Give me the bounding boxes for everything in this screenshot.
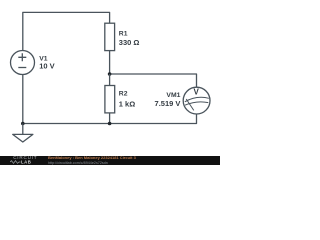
svg-text:LAB: LAB [21, 160, 31, 164]
V1 minus sign [18, 67, 26, 69]
footer url text [48, 161, 108, 165]
VM1 needle [186, 99, 194, 110]
svg-text:R1: R1 [119, 30, 128, 37]
wire R1 bottom to node [109, 51, 111, 74]
voltage source V1 [11, 51, 35, 75]
svg-text:R2: R2 [119, 90, 128, 97]
CircuitLab logo [13, 156, 37, 160]
VM1 meter upper arc [185, 97, 209, 101]
svg-text:10 V: 10 V [39, 62, 54, 71]
footer bar [0, 156, 220, 166]
svg-text:7.519 V: 7.519 V [155, 99, 181, 108]
voltmeter VM1 [183, 87, 210, 114]
svg-text:330 Ω: 330 Ω [119, 38, 140, 47]
V1 plus sign [18, 53, 26, 61]
wire voltmeter bottom to bottom rail [23, 114, 197, 124]
node junction V1/ground [21, 122, 25, 126]
footer title text [48, 156, 136, 160]
node junction R1/R2/VM1 [108, 72, 112, 76]
svg-text:VM1: VM1 [166, 92, 180, 99]
wire node to R2 top [109, 74, 111, 86]
wire V1 bottom to ground node [22, 75, 24, 125]
ground symbol [13, 134, 33, 142]
VM1 meter lower arc [185, 102, 208, 105]
ground lead [22, 124, 24, 135]
wire middle node to voltmeter top [110, 74, 197, 87]
node junction R2/bottom rail [108, 122, 112, 126]
wire R2 bottom to bottom rail [109, 113, 111, 124]
resistor R1 [105, 23, 115, 50]
resistor R2 [105, 86, 115, 113]
svg-text:V: V [194, 88, 200, 97]
wire top from V1 to R1 [23, 12, 110, 50]
svg-text:1 kΩ: 1 kΩ [119, 99, 135, 108]
